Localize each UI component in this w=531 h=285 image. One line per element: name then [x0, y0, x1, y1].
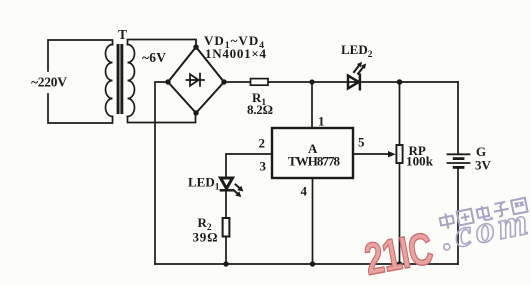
- svg-text:1N4001×4: 1N4001×4: [205, 46, 267, 61]
- resistor R1: [251, 79, 269, 86]
- wire battery to bottom rail: [457, 169, 459, 264]
- wire top rail: [224, 81, 458, 83]
- svg-text:T: T: [118, 27, 127, 42]
- node RP top junction: [397, 79, 403, 85]
- wire pin 1: [311, 82, 313, 128]
- node pin1 junction: [309, 79, 314, 84]
- svg-text:~6V: ~6V: [142, 50, 166, 65]
- svg-text:39Ω: 39Ω: [193, 230, 218, 245]
- svg-text:4: 4: [301, 184, 308, 199]
- watermark chinese characters: [439, 197, 528, 230]
- transformer T secondary winding: [128, 45, 135, 117]
- wire battery branch top: [457, 82, 459, 154]
- bridge rectifier VD1-VD4 diamond: [168, 47, 224, 113]
- wire RP branch: [399, 82, 401, 264]
- transformer T primary winding: [106, 45, 113, 117]
- resistor R2: [223, 218, 230, 237]
- svg-text:TWH8778: TWH8778: [288, 154, 341, 169]
- svg-text:3: 3: [260, 159, 267, 174]
- node RP bottom junction: [397, 261, 402, 266]
- svg-text:~220V: ~220V: [31, 75, 67, 90]
- node bridge top: [193, 44, 198, 49]
- svg-text:3V: 3V: [475, 158, 492, 173]
- svg-text:5: 5: [358, 135, 365, 150]
- wire pin 5 to RP wiper: [353, 153, 390, 155]
- wire secondary bottom: [128, 113, 196, 123]
- node bridge left: [165, 79, 170, 84]
- svg-text:100k: 100k: [406, 154, 434, 169]
- node bridge bottom: [193, 110, 198, 115]
- LED1 diode: [221, 178, 233, 189]
- wire bottom rail: [155, 263, 458, 265]
- wire secondary top: [128, 40, 197, 48]
- wire pin 4: [312, 178, 314, 264]
- diode symbol inside bridge: [187, 74, 205, 86]
- wire LED1 to R2: [225, 190, 227, 218]
- potentiometer RP: [396, 145, 402, 163]
- watermark 21IC.com: [361, 224, 437, 285]
- transformer T core: [117, 44, 120, 114]
- battery G plates: [448, 154, 470, 163]
- RP wiper arrowhead: [388, 151, 396, 157]
- LED1 light arrows: [234, 185, 244, 198]
- svg-text:2: 2: [259, 136, 266, 151]
- wire R2 to bottom rail: [225, 237, 227, 265]
- op-amp U1 TWH8778 box: [272, 128, 353, 178]
- LED2 light arrows: [354, 62, 366, 74]
- svg-text:8.2Ω: 8.2Ω: [247, 102, 273, 117]
- wire bridge left to bottom rail: [155, 82, 168, 264]
- node bridge right: [221, 79, 226, 84]
- LED2 diode: [348, 75, 360, 89]
- wire pins 2 3: [226, 154, 272, 178]
- node pin4 bottom junction: [310, 261, 315, 266]
- node R2 bottom junction: [223, 261, 228, 266]
- svg-text:1: 1: [318, 114, 325, 129]
- wire primary loop: [48, 40, 113, 123]
